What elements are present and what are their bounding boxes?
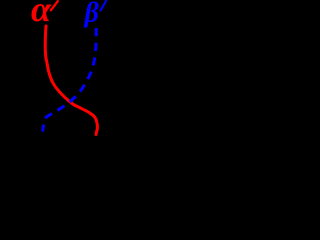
curve beta-prime (blue dashed) bbox=[43, 28, 97, 132]
background bbox=[0, 0, 129, 136]
svg-text:α: α bbox=[31, 0, 52, 29]
curve alpha-prime (red solid) bbox=[45, 26, 97, 135]
svg-text:β: β bbox=[84, 0, 100, 29]
label alpha-prime bbox=[31, 0, 58, 29]
label beta-prime bbox=[84, 0, 107, 29]
